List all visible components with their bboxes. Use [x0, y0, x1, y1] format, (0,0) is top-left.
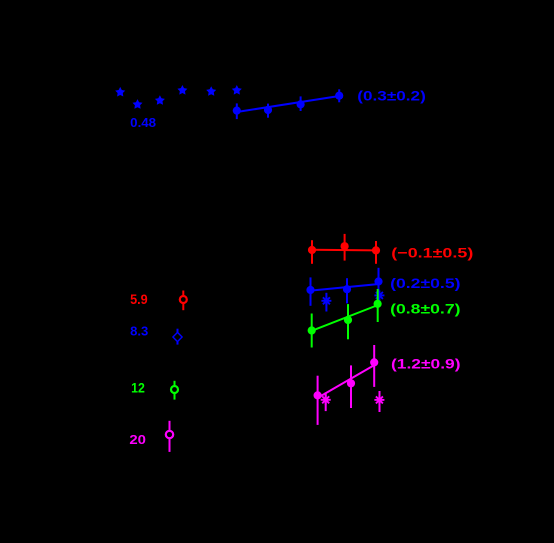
magenta series: fit line, error bars, filled points, asterisks, label [317, 365, 375, 399]
svg-text:(−0.1±0.5): (−0.1±0.5) [391, 244, 473, 260]
svg-text:0.48: 0.48 [130, 116, 156, 130]
svg-text:(0.8±0.7): (0.8±0.7) [390, 300, 460, 316]
svg-text:8.3: 8.3 [130, 324, 148, 339]
blue error bars, top series [237, 89, 339, 119]
svg-text:5.9: 5.9 [130, 291, 148, 307]
red series: fit line, error bars, filled points, label [312, 249, 376, 252]
blue fit line, top series [237, 96, 339, 112]
svg-text:(1.2±0.9): (1.2±0.9) [391, 355, 461, 371]
green series: fit line, error bars, filled points, label [312, 305, 378, 331]
svg-text:12: 12 [131, 379, 145, 395]
blue series: fit line, error bars, filled points, asterisks, label [311, 284, 380, 291]
blue star markers (0.48 GHz group) [115, 85, 242, 109]
svg-text:20: 20 [129, 432, 146, 447]
svg-text:(0.2±0.5): (0.2±0.5) [390, 275, 460, 291]
svg-text:(0.3±0.2): (0.3±0.2) [357, 88, 426, 104]
